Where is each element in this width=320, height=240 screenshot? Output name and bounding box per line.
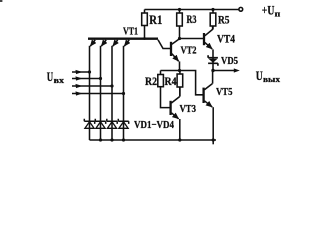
resistor R4 (179, 71, 181, 75)
output node dot (211, 69, 214, 72)
diode VD1 (84, 119, 94, 129)
svg-text:вх: вх (54, 76, 64, 85)
VT1 emitter 3 (113, 40, 118, 46)
VT4 collector (205, 26, 213, 36)
VT5 emitter (204, 101, 212, 107)
wire VT4 emitter down through VD5 (212, 49, 214, 70)
node dot VT2 collector (178, 37, 181, 40)
transistor VT4 base bar (203, 33, 205, 45)
wire emitter 3 down (111, 46, 113, 140)
input line 4 (72, 93, 124, 95)
resistor R1 (144, 10, 146, 14)
junction dot rail/R5 (211, 8, 214, 11)
VT1 emitter 2 (101, 40, 106, 46)
junction dot rail/VT5 (212, 138, 215, 141)
svg-text:U: U (256, 69, 263, 83)
input line 1 (72, 71, 90, 73)
output line with arrow (213, 70, 235, 72)
wire VT5 emitter down (212, 107, 214, 144)
svg-text:U: U (47, 70, 53, 84)
input line 2 (72, 78, 101, 80)
wire VT2 emitter down (179, 61, 181, 70)
resistor R3 (179, 10, 181, 14)
wire emitter 2 down (100, 46, 102, 140)
svg-text:VD5: VD5 (221, 55, 238, 67)
transistor VT1 base bar (88, 38, 158, 40)
wire VT2 collector to VT4 base (180, 38, 204, 40)
VT5 collector (204, 71, 212, 90)
junction dot rail/e4 (122, 138, 125, 141)
svg-text:VD1−VD4: VD1−VD4 (134, 119, 174, 131)
wire VT2 emitter node to VT5 base (161, 71, 204, 95)
VT1 base lead junction dot (143, 37, 146, 40)
VT1 emitter 4 (124, 40, 129, 46)
transistor VT3 base bar (169, 101, 171, 115)
svg-text:VT4: VT4 (217, 32, 235, 46)
svg-text:VT5: VT5 (216, 86, 233, 98)
VT4 emitter (205, 42, 212, 49)
VT3 emitter (171, 113, 178, 119)
svg-text:R1: R1 (149, 13, 162, 27)
diode VD5 (208, 55, 218, 66)
wire emitter 4 down (123, 46, 125, 140)
resistor R2 (160, 71, 162, 75)
wire VT3 emitter down (179, 119, 181, 140)
VT3 collector (171, 87, 179, 103)
VT1 emitter 1 (90, 40, 95, 46)
junction dot rail/e3 (110, 138, 113, 141)
input line 3 (72, 85, 112, 87)
VT1 collector to VT2 base (158, 40, 170, 49)
VT2 emitter (172, 54, 179, 62)
+Up terminal circle (239, 7, 243, 11)
transistor VT2 base bar (170, 42, 172, 56)
junction dot rail/R3 (178, 8, 181, 11)
svg-text:R4: R4 (165, 76, 177, 88)
svg-text:+U: +U (262, 3, 275, 17)
transistor VT5 base bar (202, 88, 204, 103)
node dot VT2 emitter (178, 69, 181, 72)
diode VD3 (107, 119, 117, 129)
diode VD4 (118, 119, 128, 129)
wire emitter 1 down (89, 46, 91, 140)
bottom rail (90, 139, 217, 141)
svg-text:R2: R2 (145, 76, 157, 88)
svg-text:R5: R5 (218, 15, 230, 27)
svg-text:VT2: VT2 (181, 45, 197, 57)
resistor R5 (212, 10, 214, 14)
svg-text:VT1: VT1 (123, 25, 138, 37)
power rail +Up (145, 9, 239, 11)
svg-text:вых: вых (263, 75, 280, 84)
VT2 collector (172, 39, 180, 44)
svg-text:п: п (275, 9, 281, 18)
svg-text:VT3: VT3 (180, 103, 197, 115)
junction dot rail/e2 (99, 138, 102, 141)
svg-text:R3: R3 (187, 14, 197, 26)
junction dot rail/VT3 (178, 138, 181, 141)
diode VD2 (95, 119, 105, 129)
scan speck top-left (0, 0, 2, 2)
